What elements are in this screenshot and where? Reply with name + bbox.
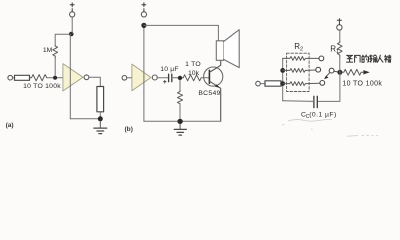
vertical resistor (b) lead (179, 80, 181, 91)
inverter U1a triangle (63, 64, 83, 91)
node dot (c main) (337, 70, 342, 75)
probe box (a) (15, 75, 30, 80)
wire (47, 77, 64, 79)
resistor (b vertical) (177, 91, 182, 105)
svg-text:(a): (a) (6, 122, 14, 129)
plus sign (c supply) (337, 19, 341, 25)
input terminal (b) (122, 76, 127, 81)
probe box (c) (265, 81, 281, 86)
svg-text:BC549: BC549 (198, 90, 220, 97)
capacitor 10uF plate 1 (168, 74, 170, 82)
plus sign (b supply) (142, 3, 146, 12)
switch arm (325, 73, 330, 78)
node dot (a supply) (69, 32, 74, 37)
wire (output) (89, 77, 100, 86)
node dot (a input) (53, 76, 57, 80)
resistor R2 row3 (283, 82, 320, 86)
supply terminal circle (a) (70, 12, 75, 17)
capacitor 10uF plate 2 (171, 74, 173, 82)
bottom rail (b) (144, 120, 221, 122)
resistor R2 row2 (283, 69, 316, 73)
bubble (b) (152, 75, 157, 80)
input terminal (c) (256, 81, 261, 86)
wire (bubble to cap) (157, 77, 168, 79)
node dot (b mid) (178, 76, 182, 80)
svg-text:1M: 1M (43, 47, 53, 54)
switch pole wire (334, 71, 340, 72)
bottom rail (a) (70, 118, 100, 120)
node dot (b ground) (177, 119, 182, 124)
ground (b) (179, 124, 181, 129)
svg-text:1: 1 (336, 49, 339, 55)
wire (172, 77, 183, 79)
cap branch horizontal (283, 100, 314, 103)
capacitor Cc plate right (316, 96, 318, 107)
speaker LS1 box (216, 41, 223, 61)
tap circle 2 (316, 67, 321, 72)
capacitor Cc plate left (313, 96, 315, 107)
base bar (208, 70, 210, 83)
resistor 10 TO 100k (a) (30, 75, 47, 81)
char ru (377, 55, 383, 62)
tap circle 1 (319, 56, 324, 61)
supply line through gate (b) (143, 25, 145, 121)
wire (1M lower lead) (54, 58, 56, 76)
transistor Q1 BC549 circle (204, 67, 223, 86)
emitter lead (209, 81, 220, 121)
svg-text:(b): (b) (124, 126, 132, 133)
resistor 1M (53, 45, 58, 57)
resistor R2 row1 (283, 57, 319, 61)
svg-text:10 TO 100k: 10 TO 100k (23, 83, 61, 90)
node dot (c row2) (280, 68, 285, 73)
node dot (c input) (280, 81, 285, 86)
wire (13, 77, 15, 79)
emitter arrowhead (215, 84, 220, 88)
resistor 1 TO 10k (183, 75, 201, 81)
wire (1M upper lead) (55, 34, 72, 45)
resistor R1 (338, 41, 343, 57)
supply terminal (c) (337, 25, 342, 30)
char zhi (347, 55, 353, 62)
switch arm arrowhead (324, 76, 328, 80)
svg-text:10 TO 100k: 10 TO 100k (342, 80, 382, 87)
wire R1 bottom lead (339, 57, 341, 72)
supply terminal (b) (141, 12, 146, 17)
top rail (b) (144, 25, 219, 40)
node dot (b supply) (141, 23, 146, 28)
svg-text:1 TO: 1 TO (185, 61, 201, 68)
wire R1 top lead (339, 30, 341, 41)
svg-text:10 µF: 10 µF (160, 66, 179, 73)
label to-gate-input (Chinese, drawn strokes) (347, 55, 391, 62)
char duan (385, 55, 391, 62)
ground (a) (99, 121, 101, 128)
cap branch vertical (318, 72, 340, 101)
tap circle 3 (320, 81, 325, 86)
wire (127, 77, 132, 79)
faint print bleed-through artifacts (bottom area) (282, 119, 378, 136)
char shu (370, 55, 377, 62)
switch pole circle (329, 68, 334, 73)
input terminal J1a (8, 75, 13, 80)
left bus (c) (282, 58, 284, 100)
box resistor (a output) (97, 87, 104, 112)
svg-text:2: 2 (300, 47, 303, 53)
node dot (a ground) (98, 116, 103, 121)
polarity plus (10uF) (164, 80, 167, 83)
char men (355, 55, 361, 62)
bubble (a) (84, 75, 89, 80)
dashed selection box R2 (287, 53, 310, 91)
wire down to rail (179, 105, 181, 121)
output arrow (363, 70, 369, 74)
wire (260, 83, 265, 85)
svg-text:10k: 10k (188, 70, 200, 77)
resistor 10 TO 100k (c) (342, 69, 363, 75)
collector lead (209, 60, 220, 72)
supply line through gate (a) (69, 34, 71, 119)
plus sign (a supply) (70, 3, 74, 12)
wire (99, 112, 101, 119)
svg-text:(0.1 µF): (0.1 µF) (309, 111, 337, 118)
wire to supply terminal (71, 17, 73, 33)
speaker cone (224, 30, 240, 68)
wire (281, 83, 283, 85)
wire to base (201, 77, 209, 79)
inverter U1b triangle (132, 64, 151, 91)
char de (362, 55, 369, 62)
